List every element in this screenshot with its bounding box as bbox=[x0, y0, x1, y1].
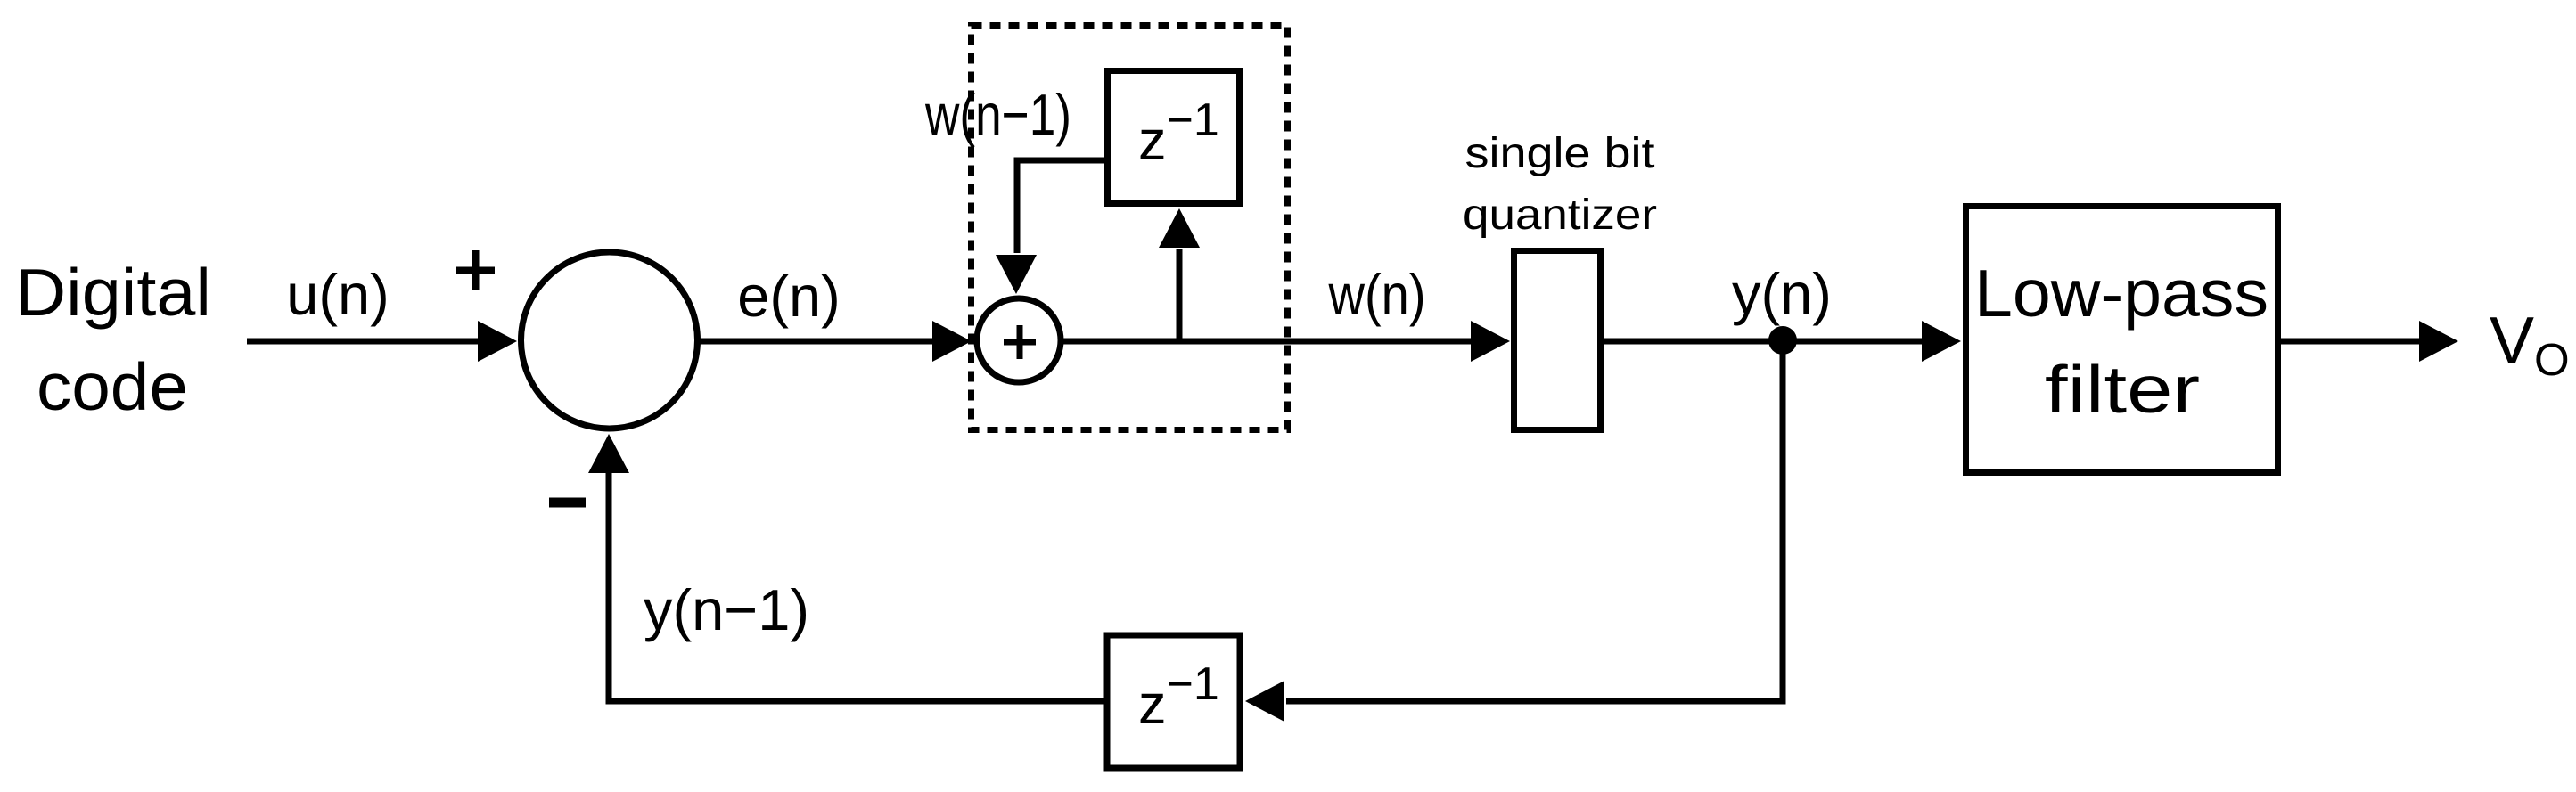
plus sign at summing junction input bbox=[456, 250, 495, 290]
svg-text:w(n−1): w(n−1) bbox=[924, 82, 1071, 147]
wire w(n) from adder to quantizer with arrowhead bbox=[1061, 321, 1510, 362]
svg-text:Low-pass: Low-pass bbox=[1974, 256, 2268, 331]
low-pass filter block bbox=[1966, 207, 2278, 473]
svg-text:y(n): y(n) bbox=[1732, 261, 1832, 326]
summing junction circle S1 bbox=[521, 252, 698, 429]
minus sign at summing junction feedback input bbox=[549, 498, 586, 508]
svg-text:y(n−1): y(n−1) bbox=[644, 577, 809, 642]
delay block z^-1 (bottom) bbox=[1107, 635, 1240, 768]
delay block z^-1 (top) bbox=[1108, 71, 1240, 204]
label single bit quantizer bbox=[1463, 130, 1657, 239]
wire u(n) input with arrowhead into summing junction bbox=[247, 321, 517, 362]
label "Digital code" input name bbox=[15, 255, 211, 424]
feedback wire from bottom z^-1 left and up into summing junction with arrowhead bbox=[588, 434, 1105, 701]
wire from z^-1 output down into adder with arrowhead bbox=[996, 160, 1107, 294]
feedback wire from node y(n) down and left into bottom z^-1 with arrowhead bbox=[1245, 341, 1783, 722]
svg-text:filter: filter bbox=[2045, 352, 2200, 427]
svg-text:e(n): e(n) bbox=[737, 264, 841, 329]
svg-text:quantizer: quantizer bbox=[1463, 192, 1657, 239]
svg-text:w(n): w(n) bbox=[1328, 262, 1426, 327]
wire from quantizer to low-pass filter with arrowhead bbox=[1604, 321, 1961, 362]
wire from adder output up into z^-1 with arrowhead bbox=[1159, 208, 1200, 341]
quantizer block bbox=[1514, 251, 1601, 430]
wire e(n) from summing junction to adder with arrowhead bbox=[700, 321, 972, 362]
adder circle with plus bbox=[977, 298, 1061, 382]
svg-text:u(n): u(n) bbox=[286, 262, 390, 327]
output wire to Vo with arrowhead bbox=[2281, 321, 2458, 362]
node y(n) junction dot bbox=[1768, 326, 1797, 355]
svg-text:code: code bbox=[37, 349, 188, 424]
svg-text:Digital: Digital bbox=[15, 255, 211, 330]
svg-text:single bit: single bit bbox=[1465, 130, 1655, 177]
dashed box accumulator bbox=[972, 26, 1288, 430]
